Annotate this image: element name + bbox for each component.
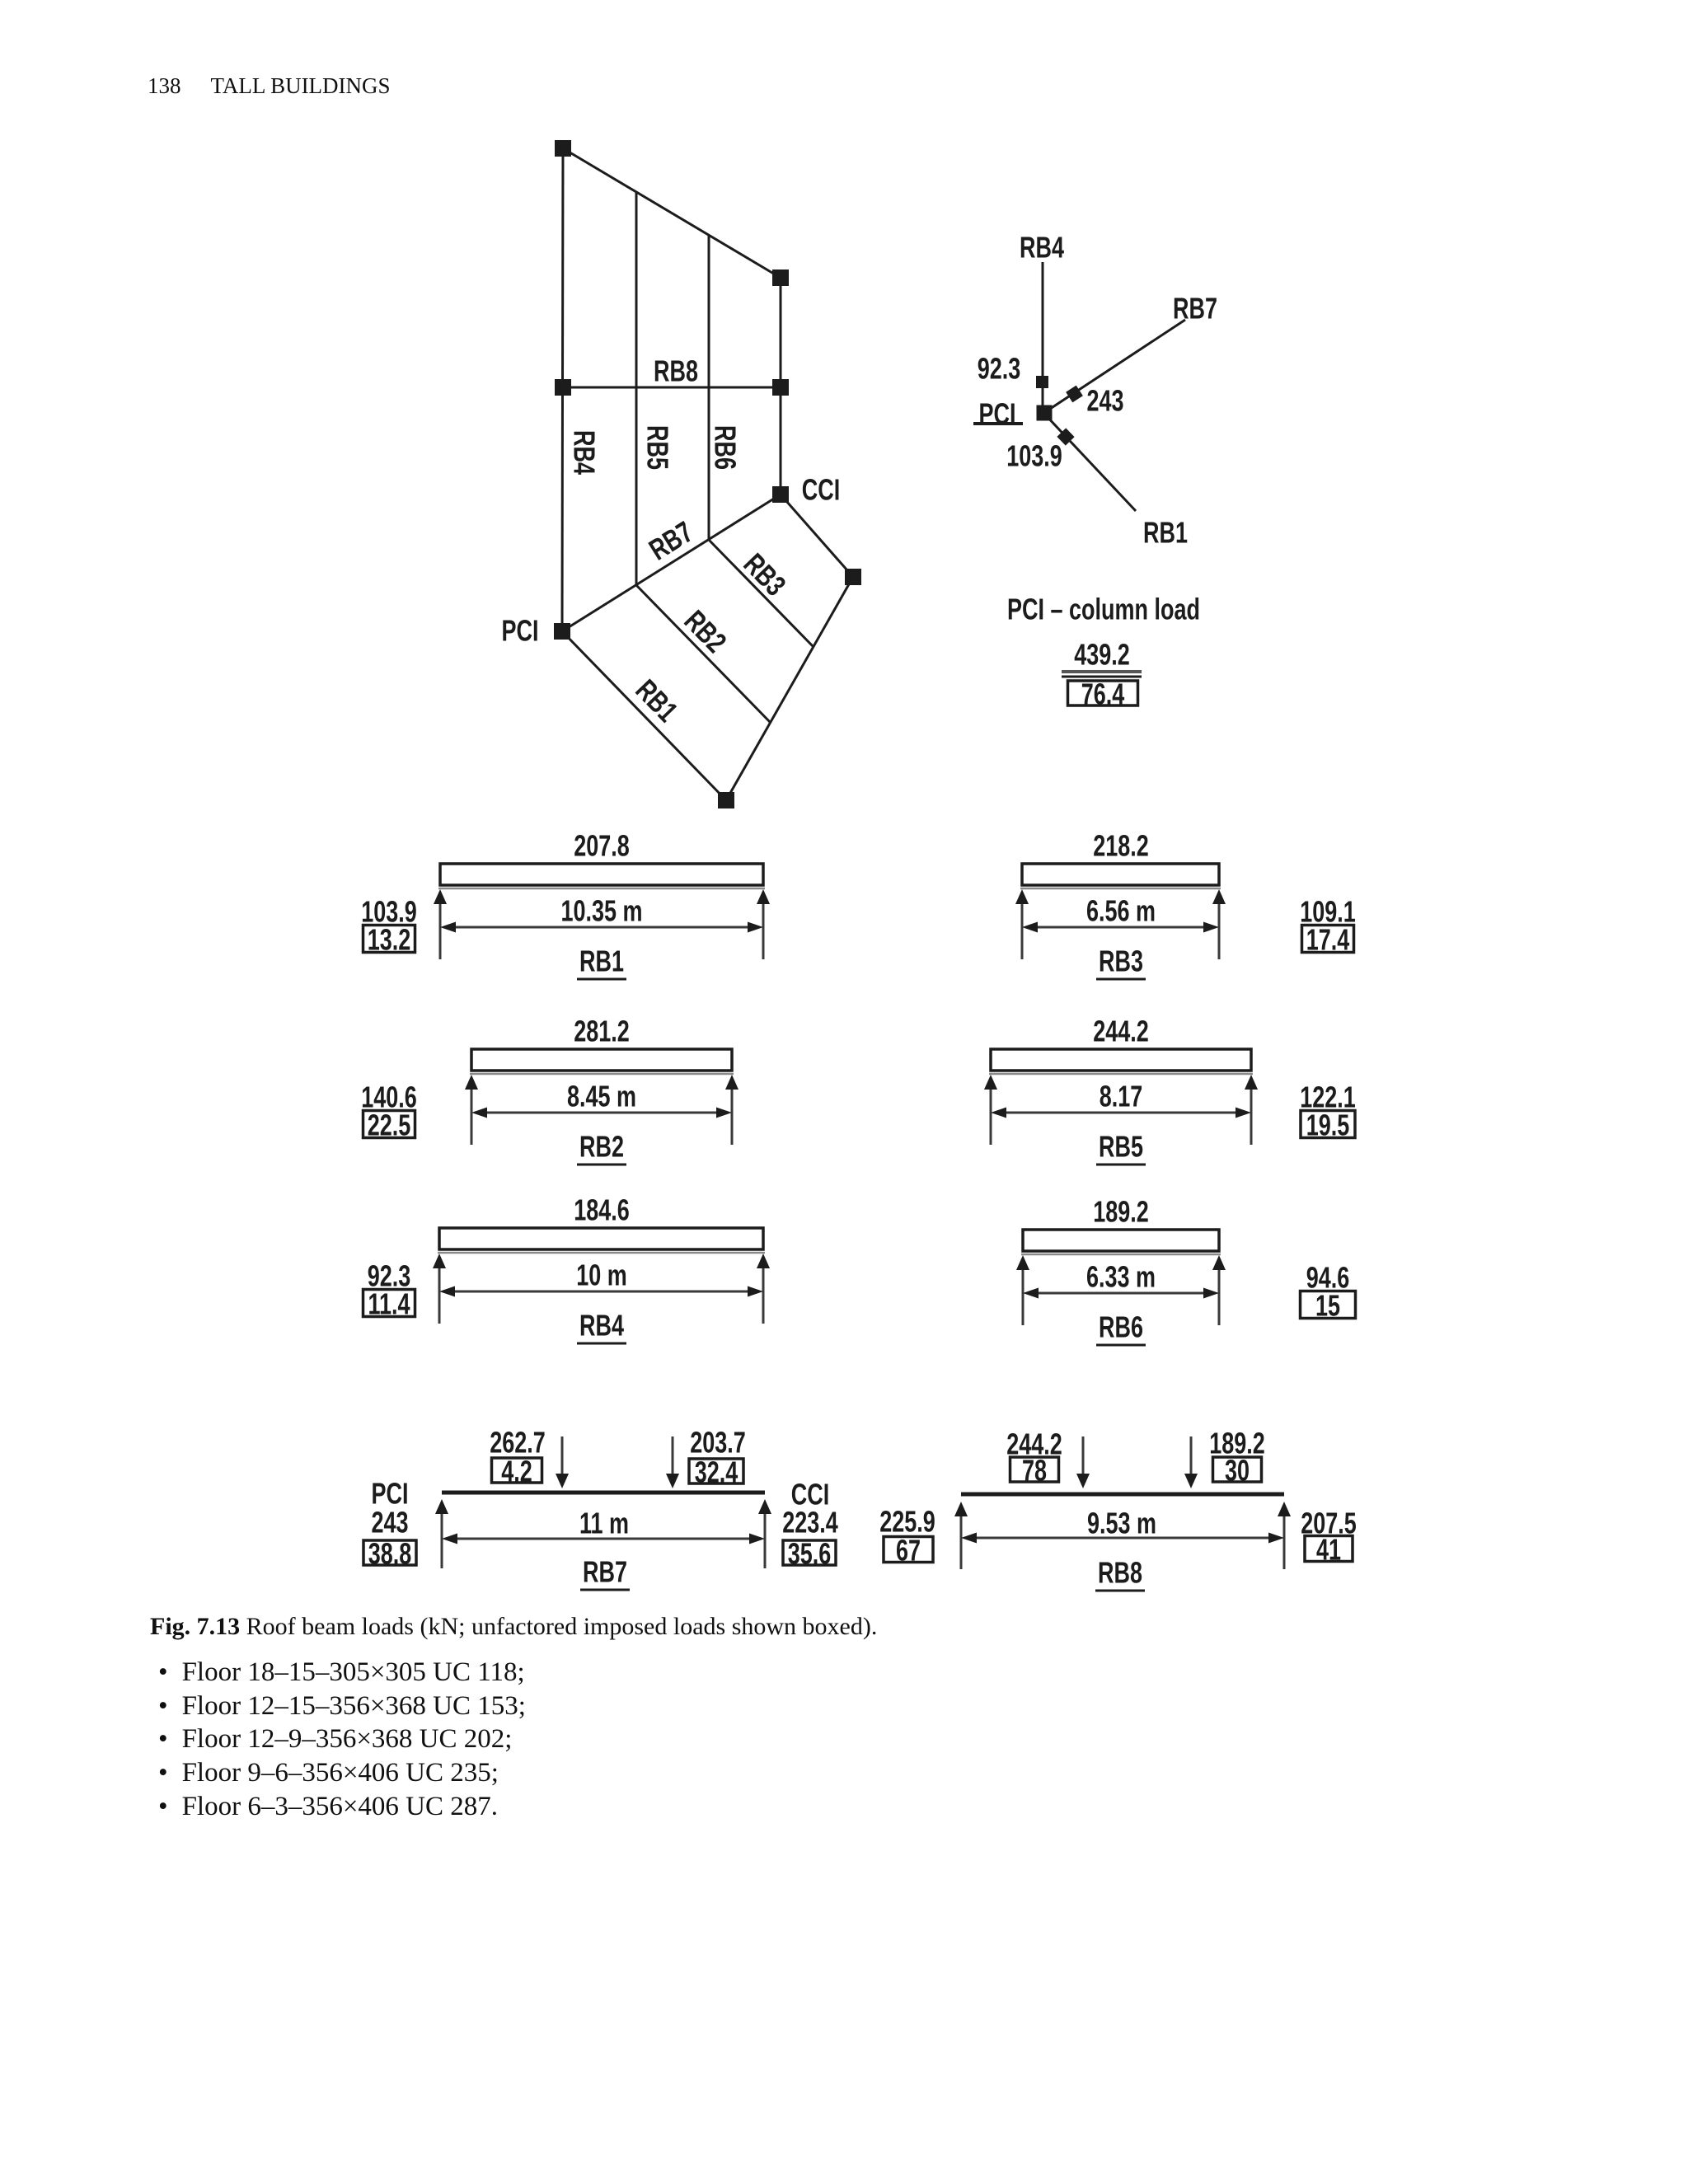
label 243 reaction (RB7) bbox=[371, 1506, 408, 1540]
node column at N3 (RB8 left end) bbox=[555, 379, 571, 396]
svg-text:RB1: RB1 bbox=[1143, 516, 1188, 550]
node square on RB4 line (92.3) bbox=[1036, 376, 1048, 388]
label 11 m (RB7) bbox=[579, 1507, 629, 1540]
svg-text:76.4: 76.4 bbox=[1081, 677, 1125, 711]
svg-text:RB5: RB5 bbox=[1099, 1130, 1143, 1164]
svg-text:6.33 m: 6.33 m bbox=[1086, 1260, 1156, 1294]
svg-text:RB7: RB7 bbox=[643, 514, 698, 566]
wire roof edge N1-N2 (top diagonal) bbox=[563, 148, 781, 278]
boxed 4.2 (RB7) bbox=[492, 1455, 542, 1488]
beam RB7 plan line bbox=[562, 494, 781, 631]
reaction arrow left (RB1) bbox=[434, 889, 447, 959]
wire total rule upper bbox=[1062, 670, 1142, 673]
label 6.33 m (RB6) bbox=[1086, 1260, 1156, 1294]
reaction arrow right (RB7) bbox=[758, 1499, 771, 1568]
svg-text:8.17: 8.17 bbox=[1100, 1080, 1143, 1113]
svg-text:244.2: 244.2 bbox=[1093, 1015, 1149, 1048]
label PCI (RB7) bbox=[372, 1477, 409, 1511]
beam RB3 plan line bbox=[709, 540, 813, 646]
label RB7 (underlined) bbox=[583, 1555, 627, 1589]
svg-text:RB2: RB2 bbox=[678, 603, 734, 658]
reaction arrow left (RB7) bbox=[435, 1499, 448, 1568]
beam RB5 plan line bbox=[635, 192, 638, 585]
beam RB8 line bbox=[961, 1493, 1284, 1497]
label 189.2 point load (RB8) bbox=[1209, 1427, 1265, 1460]
svg-text:10.35 m: 10.35 m bbox=[560, 894, 642, 928]
label 94.6 reaction (RB6) bbox=[1306, 1261, 1350, 1295]
label 103.9 reaction (RB1) bbox=[361, 895, 417, 929]
wire edge CCI-N7 bbox=[781, 494, 853, 577]
label RB2 (underlined) bbox=[579, 1130, 624, 1164]
dimension line 9.53 m (RB8) bbox=[961, 1533, 1284, 1544]
svg-text:281.2: 281.2 bbox=[574, 1015, 630, 1048]
svg-text:RB7: RB7 bbox=[1173, 292, 1217, 326]
boxed 11.4 imposed (RB4) bbox=[363, 1287, 415, 1321]
label 92.3 (detail) bbox=[978, 352, 1021, 386]
svg-text:11 m: 11 m bbox=[579, 1507, 629, 1540]
figure caption bbox=[150, 1615, 877, 1639]
svg-text:PCI – column load: PCI – column load bbox=[1007, 593, 1200, 626]
svg-text:15: 15 bbox=[1315, 1289, 1340, 1323]
label 189.2 load (RB6) bbox=[1093, 1195, 1149, 1229]
reaction arrow left (RB5) bbox=[984, 1075, 997, 1145]
svg-text:8.45 m: 8.45 m bbox=[567, 1080, 636, 1113]
svg-text:35.6: 35.6 bbox=[788, 1537, 832, 1571]
dimension line 10 m (RB4) bbox=[439, 1286, 763, 1297]
svg-text:17.4: 17.4 bbox=[1306, 923, 1350, 957]
label 10.35 m (RB1) bbox=[560, 894, 642, 928]
svg-text:30: 30 bbox=[1225, 1454, 1250, 1488]
svg-text:203.7: 203.7 bbox=[690, 1426, 746, 1460]
svg-text:RB8: RB8 bbox=[1098, 1556, 1142, 1590]
node column at N2 (upper-right) bbox=[772, 269, 789, 286]
label 184.6 load (RB4) bbox=[574, 1193, 630, 1227]
node column CCI bbox=[772, 486, 789, 503]
boxed 67 (RB8) bbox=[884, 1534, 933, 1568]
label RB4 (plan, rotated) bbox=[568, 430, 602, 475]
svg-text:PCI: PCI bbox=[502, 614, 539, 648]
label RB8 (plan) bbox=[654, 354, 698, 388]
label 140.6 reaction (RB2) bbox=[361, 1080, 417, 1114]
dimension line 6.56 m (RB3) bbox=[1022, 922, 1219, 933]
label 281.2 load (RB2) bbox=[574, 1015, 630, 1048]
dimension line 6.33 m (RB6) bbox=[1023, 1288, 1219, 1299]
node column at N4 (RB8 right end) bbox=[772, 379, 789, 396]
boxed 41 (RB8) bbox=[1305, 1533, 1353, 1567]
reaction arrow left (RB8) bbox=[954, 1502, 968, 1569]
boxed 17.4 imposed (RB3) bbox=[1302, 923, 1354, 957]
label PCI (plan) bbox=[502, 614, 539, 648]
svg-text:RB7: RB7 bbox=[583, 1555, 627, 1589]
reaction arrow right (RB3) bbox=[1212, 889, 1226, 959]
svg-text:41: 41 bbox=[1316, 1533, 1341, 1567]
reaction arrow right (RB5) bbox=[1245, 1075, 1258, 1145]
svg-text:189.2: 189.2 bbox=[1093, 1195, 1149, 1229]
node column at N1 (top-left) bbox=[555, 140, 571, 157]
point load arrow 2 (RB8) bbox=[1184, 1436, 1198, 1488]
svg-text:243: 243 bbox=[371, 1506, 408, 1540]
label RB4 (detail) bbox=[1020, 231, 1064, 265]
wire bottom-right edge N8-N7 bbox=[726, 577, 853, 800]
beam RB3 rectangle bbox=[1020, 864, 1221, 888]
beam RB4 plan line bbox=[562, 148, 563, 631]
label 8.45 m (RB2) bbox=[567, 1080, 636, 1113]
reaction arrow right (RB1) bbox=[757, 889, 770, 959]
label 92.3 reaction (RB4) bbox=[368, 1259, 411, 1293]
label RB1 (underlined) bbox=[579, 944, 624, 978]
boxed 38.8 (RB7) bbox=[363, 1537, 416, 1571]
reaction arrow right (RB4) bbox=[757, 1254, 770, 1324]
label RB4 (underlined) bbox=[579, 1309, 624, 1343]
label 243 (detail) bbox=[1086, 384, 1123, 418]
svg-text:19.5: 19.5 bbox=[1306, 1108, 1350, 1142]
node column PCI bbox=[554, 623, 570, 640]
svg-text:92.3: 92.3 bbox=[978, 352, 1021, 386]
boxed 22.5 imposed (RB2) bbox=[363, 1108, 415, 1142]
beam RB5 rectangle bbox=[989, 1049, 1253, 1074]
svg-text:243: 243 bbox=[1086, 384, 1123, 418]
label RB3 (plan, rotated) bbox=[738, 546, 793, 602]
boxed 19.5 imposed (RB5) bbox=[1301, 1108, 1355, 1142]
point load arrow 1 (RB8) bbox=[1076, 1436, 1090, 1488]
label 109.1 reaction (RB3) bbox=[1300, 895, 1356, 929]
svg-text:RB3: RB3 bbox=[738, 546, 793, 602]
boxed 32.4 (RB7) bbox=[689, 1455, 743, 1489]
label 103.9 (detail) bbox=[1006, 439, 1062, 473]
beam RB7 line bbox=[442, 1491, 765, 1495]
svg-text:CCI: CCI bbox=[802, 473, 840, 507]
boxed 15 imposed (RB6) bbox=[1301, 1289, 1356, 1323]
svg-text:6.56 m: 6.56 m bbox=[1086, 894, 1156, 928]
boxed 35.6 (RB7) bbox=[783, 1537, 836, 1571]
svg-text:RB4: RB4 bbox=[568, 430, 602, 475]
reaction arrow left (RB4) bbox=[433, 1254, 446, 1324]
label 203.7 point load (RB7) bbox=[690, 1426, 746, 1460]
label RB5 (underlined) bbox=[1099, 1130, 1143, 1164]
bullet list of floor column sections bbox=[158, 1659, 525, 1686]
label 262.7 point load (RB7) bbox=[490, 1426, 546, 1460]
wire total rule lower bbox=[1062, 676, 1142, 678]
svg-text:103.9: 103.9 bbox=[1006, 439, 1062, 473]
boxed 13.2 imposed (RB1) bbox=[363, 923, 415, 957]
wire RB4 detail vertical bbox=[1042, 262, 1044, 412]
beam RB6 plan line bbox=[708, 235, 710, 540]
svg-text:4.2: 4.2 bbox=[501, 1455, 532, 1488]
dimension line 11 m (RB7) bbox=[442, 1534, 765, 1544]
beam RB1 plan line bbox=[562, 631, 726, 800]
svg-text:RB6: RB6 bbox=[1099, 1310, 1143, 1344]
wire PCI underline bbox=[973, 422, 1023, 425]
label RB8 (underlined) bbox=[1098, 1556, 1142, 1590]
wire right column line N2-CCI bbox=[780, 278, 782, 494]
beam RB4 rectangle bbox=[438, 1228, 765, 1253]
label RB3 (underlined) bbox=[1099, 944, 1143, 978]
label 218.2 load (RB3) bbox=[1093, 829, 1149, 863]
dimension line 8.45 m (RB2) bbox=[471, 1108, 732, 1118]
dimension line 8.17 (RB5) bbox=[991, 1108, 1251, 1118]
node column at N7 (far right) bbox=[845, 569, 861, 585]
label 6.56 m (RB3) bbox=[1086, 894, 1156, 928]
svg-text:11.4: 11.4 bbox=[368, 1287, 410, 1321]
wire RB7 detail diagonal bbox=[1045, 320, 1185, 412]
label 439.2 total bbox=[1074, 638, 1130, 672]
label RB1 (plan, rotated) bbox=[630, 673, 685, 728]
reaction arrow left (RB2) bbox=[465, 1075, 478, 1145]
svg-text:10 m: 10 m bbox=[576, 1258, 627, 1292]
svg-text:RB8: RB8 bbox=[654, 354, 698, 388]
beam RB2 rectangle bbox=[470, 1049, 734, 1074]
label PCI (detail, underlined) bbox=[979, 397, 1016, 431]
label 223.4 reaction (RB7) bbox=[782, 1506, 838, 1540]
svg-text:RB6: RB6 bbox=[709, 425, 743, 470]
svg-text:9.53 m: 9.53 m bbox=[1087, 1507, 1156, 1540]
svg-text:32.4: 32.4 bbox=[695, 1455, 738, 1489]
node PCI detail square bbox=[1037, 405, 1053, 421]
svg-text:22.5: 22.5 bbox=[368, 1108, 411, 1142]
label 225.9 reaction (RB8) bbox=[879, 1505, 935, 1539]
boxed 30 (RB8) bbox=[1213, 1454, 1262, 1488]
point load arrow 1 (RB7) bbox=[556, 1436, 569, 1488]
label 8.17 (RB5) bbox=[1100, 1080, 1143, 1113]
label RB7 (plan, rotated) bbox=[643, 514, 698, 566]
svg-text:223.4: 223.4 bbox=[782, 1506, 838, 1540]
svg-text:RB4: RB4 bbox=[1020, 231, 1064, 265]
label RB6 (underlined) bbox=[1099, 1310, 1143, 1344]
boxed 78 (RB8) bbox=[1010, 1454, 1059, 1488]
svg-text:RB5: RB5 bbox=[641, 425, 675, 470]
node square on RB7 line (243) bbox=[1066, 386, 1083, 403]
svg-text:207.8: 207.8 bbox=[574, 829, 630, 863]
reaction arrow right (RB8) bbox=[1278, 1502, 1291, 1569]
svg-text:RB1: RB1 bbox=[630, 673, 685, 728]
svg-text:RB2: RB2 bbox=[579, 1130, 624, 1164]
dimension line 10.35 m (RB1) bbox=[440, 922, 763, 933]
label 244.2 point load (RB8) bbox=[1006, 1427, 1062, 1461]
node column at N8 (bottom) bbox=[718, 792, 734, 808]
svg-text:439.2: 439.2 bbox=[1074, 638, 1130, 672]
label RB5 (plan, rotated) bbox=[641, 425, 675, 470]
reaction arrow left (RB3) bbox=[1015, 889, 1029, 959]
label PCI - column load bbox=[1007, 593, 1200, 626]
svg-text:218.2: 218.2 bbox=[1093, 829, 1149, 863]
wire RB1 detail diagonal bbox=[1045, 415, 1136, 511]
svg-text:67: 67 bbox=[896, 1534, 921, 1568]
label 207.5 reaction (RB8) bbox=[1301, 1507, 1357, 1540]
beam RB2 plan line bbox=[636, 585, 771, 723]
boxed 76.4 imposed total bbox=[1068, 677, 1138, 711]
beam RB1 rectangle bbox=[438, 864, 765, 888]
label 9.53 m (RB8) bbox=[1087, 1507, 1156, 1540]
label 244.2 load (RB5) bbox=[1093, 1015, 1149, 1048]
label RB7 (detail) bbox=[1173, 292, 1217, 326]
svg-text:38.8: 38.8 bbox=[368, 1537, 412, 1571]
reaction arrow right (RB2) bbox=[725, 1075, 738, 1145]
svg-text:78: 78 bbox=[1022, 1454, 1047, 1488]
svg-text:PCI: PCI bbox=[979, 397, 1016, 431]
label RB1 (detail) bbox=[1143, 516, 1188, 550]
label 10 m (RB4) bbox=[576, 1258, 627, 1292]
svg-text:RB3: RB3 bbox=[1099, 944, 1143, 978]
svg-text:13.2: 13.2 bbox=[368, 923, 411, 957]
label CCI (RB7) bbox=[791, 1478, 829, 1511]
svg-text:184.6: 184.6 bbox=[574, 1193, 630, 1227]
reaction arrow left (RB6) bbox=[1016, 1255, 1029, 1325]
label CCI (plan) bbox=[802, 473, 840, 507]
svg-text:RB4: RB4 bbox=[579, 1309, 624, 1343]
svg-text:RB1: RB1 bbox=[579, 944, 624, 978]
beam RB8 plan line bbox=[563, 387, 781, 389]
label RB6 (plan, rotated) bbox=[709, 425, 743, 470]
reaction arrow right (RB6) bbox=[1212, 1255, 1226, 1325]
point load arrow 2 (RB7) bbox=[666, 1436, 679, 1488]
label RB2 (plan, rotated) bbox=[678, 603, 734, 658]
label 207.8 load (RB1) bbox=[574, 829, 630, 863]
label 122.1 reaction (RB5) bbox=[1300, 1080, 1356, 1114]
page header: running head bbox=[148, 75, 391, 97]
beam RB6 rectangle bbox=[1021, 1230, 1221, 1254]
node square on RB1 line (103.9) bbox=[1057, 428, 1074, 445]
